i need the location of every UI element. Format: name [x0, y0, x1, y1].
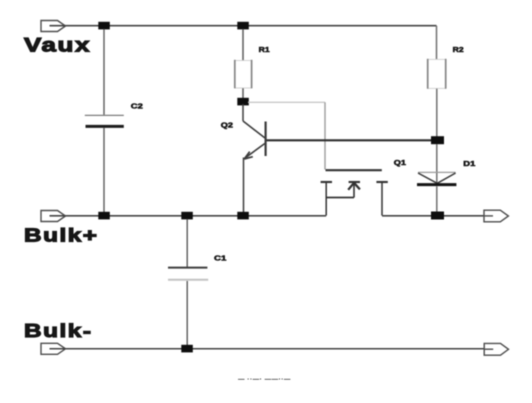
- wire R1 bottom lead: [242, 88, 244, 99]
- wire D1 cathode lead: [436, 186, 438, 212]
- svg-text:Q2: Q2: [221, 121, 233, 130]
- wire C1 top lead: [186, 219, 188, 267]
- wire R2 column top corner: [436, 26, 438, 60]
- svg-text:D1: D1: [463, 159, 476, 168]
- resistor R1: [235, 60, 252, 89]
- wire R1 top lead: [242, 29, 244, 61]
- node J9 C1 bottom on Bulk- rail: [181, 345, 193, 353]
- svg-text:Q1: Q1: [394, 158, 407, 167]
- capacitor C2: [85, 115, 124, 126]
- wire C2 top lead: [103, 29, 105, 115]
- svg-text:Vaux: Vaux: [24, 35, 91, 57]
- wire C2 bottom lead: [103, 128, 105, 212]
- terminal output right: [484, 210, 508, 222]
- wire Vaux top rail: [50, 25, 437, 27]
- svg-text:C2: C2: [131, 102, 143, 111]
- wire output line: [382, 215, 496, 217]
- svg-text:Bulk-: Bulk-: [24, 320, 93, 341]
- mosfet Q1: [321, 170, 388, 215]
- node J1 top of C2: [98, 22, 110, 30]
- svg-text:R2: R2: [453, 45, 464, 54]
- wire R2 bottom lead: [436, 89, 438, 138]
- wire Bulk+ rail: [50, 215, 327, 217]
- terminal Bulk- left: [41, 343, 66, 354]
- wire Bulk- rail: [50, 348, 497, 350]
- terminal Bulk+: [41, 211, 66, 222]
- node J4 R2 bottom / D1 anode / Q2 base: [431, 136, 444, 144]
- diode D1: [417, 172, 456, 184]
- wire Q1 gate vertical: [324, 102, 326, 169]
- wire C1 bottom lead: [186, 281, 188, 345]
- wire Q2 base to node J4: [267, 139, 438, 141]
- svg-text:Bulk+: Bulk+: [24, 225, 99, 246]
- wire Q1 gate horizontal (light): [248, 101, 325, 103]
- terminal Bulk- right: [484, 343, 508, 355]
- node J3 R1 bottom / Q2 collector: [237, 98, 249, 106]
- node J6 C1 top on rail: [181, 212, 193, 220]
- svg-text:R1: R1: [259, 45, 271, 54]
- svg-text:— ··—· ——··—: — ··—· ——··—: [238, 376, 291, 383]
- terminal Vaux: [41, 21, 66, 32]
- node J7 Q2 emitter on rail: [237, 212, 249, 220]
- node J5 C2 bottom on rail: [98, 212, 110, 220]
- node J8 D1 cathode on output: [431, 212, 444, 220]
- resistor R2: [428, 59, 446, 89]
- svg-text:C1: C1: [214, 253, 227, 262]
- transistor Q2: [243, 104, 266, 212]
- node J2 top of R1: [237, 22, 249, 30]
- wire D1 anode lead: [436, 144, 438, 183]
- capacitor C1: [168, 268, 208, 280]
